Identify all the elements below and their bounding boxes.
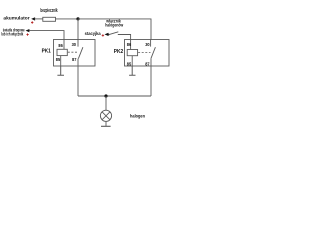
battery polarity + mark [31, 21, 33, 23]
wire: battery arrow to fuse [35, 18, 43, 20]
relay PK2 pin 87 stub [150, 59, 152, 66]
wire: node A to top-right corner feeding PK2 pin 30 [78, 19, 151, 40]
relay PK1 body [54, 40, 96, 67]
svg-text:30: 30 [72, 42, 77, 47]
relay PK2 body [125, 40, 170, 67]
bottom bus wire (87 to 87) [78, 95, 151, 97]
wire: node B down to lamp [105, 96, 107, 110]
relay PK1 pin 30 stub [77, 40, 79, 47]
relay PK1 pin 85 stub [60, 56, 62, 66]
svg-text:86: 86 [127, 42, 132, 47]
relay PK1 coil [57, 49, 67, 55]
wire: switch to PK2 pin 86 [118, 35, 131, 40]
svg-text:halogenów: halogenów [105, 22, 124, 27]
svg-text:87: 87 [72, 57, 77, 62]
svg-text:halogen: halogen [130, 113, 145, 118]
high-beam polarity + mark [26, 33, 28, 35]
wire: lamp to ground [105, 121, 107, 126]
svg-text:85: 85 [127, 61, 132, 66]
ground below lamp [101, 125, 111, 127]
svg-text:akumulator: akumulator [3, 16, 29, 22]
svg-text:stacyjka: stacyjka [85, 31, 102, 36]
node B junction dot [104, 94, 107, 97]
arrow to high-beam switch [26, 29, 30, 32]
svg-text:bezpiecznik: bezpiecznik [40, 8, 57, 14]
svg-text:87: 87 [145, 61, 150, 66]
switch wlacznik halogenow: left terminal dot [108, 34, 110, 36]
svg-text:lub ich włącznik: lub ich włącznik [1, 32, 24, 37]
fuse bezpiecznik [43, 17, 56, 21]
relay PK1 contact blade (30-87, open) [78, 47, 83, 58]
wire: high-beam feed to PK1 pin 86 [29, 31, 64, 40]
lamp halogen (circle with X) [100, 110, 111, 121]
wire: fuse to node A [56, 18, 79, 20]
relay PK1 actuation dashed link [68, 51, 78, 53]
relay PK2 pin 30 stub [150, 40, 152, 47]
svg-text:30: 30 [145, 42, 150, 47]
relay PK1 pin 86 stub [63, 40, 65, 50]
switch wlacznik halogenow: open blade [109, 32, 119, 35]
arrow to battery (akumulator) [31, 17, 35, 20]
wire: PK2 pin 87 down to bottom bus [150, 66, 152, 96]
node A junction dot [76, 17, 79, 20]
relay PK2 coil [127, 50, 137, 56]
relay PK1 pin 87 stub [77, 59, 79, 66]
svg-text:PK1: PK1 [42, 49, 51, 55]
wire: PK1 pin 87 down to bottom bus [77, 66, 79, 96]
stacyjka polarity + mark [102, 34, 104, 36]
svg-text:85: 85 [56, 57, 61, 62]
relay PK2 pin 85 stub [131, 56, 133, 66]
relay PK2 contact blade (30-87, open) [151, 47, 156, 58]
relay PK2 pin 86 stub [130, 40, 132, 50]
svg-text:86: 86 [58, 43, 63, 48]
arrow to stacyjka (ignition) [105, 33, 109, 36]
svg-text:PK2: PK2 [114, 49, 124, 55]
wire: node A down to PK1 pin 30 [77, 19, 79, 40]
ground below PK1 pin 85 [57, 66, 64, 75]
ground below PK2 pin 85 [129, 66, 135, 75]
relay PK2 actuation dashed link [138, 51, 150, 53]
